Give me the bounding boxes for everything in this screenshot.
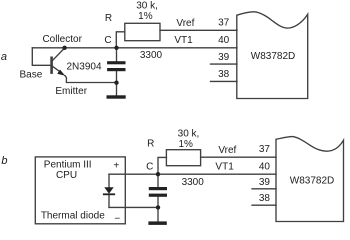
svg-text:Base: Base — [20, 69, 43, 80]
svg-text:3300: 3300 — [182, 177, 205, 188]
svg-text:Vref: Vref — [218, 145, 236, 156]
svg-text:+: + — [113, 160, 119, 171]
svg-text:Collector: Collector — [42, 34, 82, 45]
svg-text:1%: 1% — [178, 139, 193, 150]
svg-text:W83782D: W83782D — [251, 51, 295, 62]
svg-text:W83782D: W83782D — [290, 176, 334, 187]
svg-text:a: a — [1, 51, 7, 63]
svg-text:Emitter: Emitter — [55, 86, 87, 97]
svg-text:VT1: VT1 — [174, 35, 193, 46]
svg-text:1%: 1% — [138, 11, 153, 22]
svg-text:37: 37 — [259, 144, 271, 155]
svg-text:VT1: VT1 — [215, 161, 234, 172]
svg-text:b: b — [1, 155, 7, 167]
svg-text:40: 40 — [218, 35, 230, 46]
svg-text:CPU: CPU — [56, 170, 77, 181]
svg-text:C: C — [104, 35, 111, 46]
svg-text:2N3904: 2N3904 — [66, 61, 101, 72]
svg-text:30 k,: 30 k, — [178, 128, 200, 139]
svg-text:C: C — [146, 162, 153, 173]
svg-text:3300: 3300 — [140, 50, 163, 61]
svg-text:R: R — [105, 13, 112, 24]
svg-text:38: 38 — [259, 193, 271, 204]
svg-text:Pentium III: Pentium III — [44, 160, 92, 171]
svg-text:Thermal diode: Thermal diode — [41, 210, 105, 221]
svg-text:39: 39 — [259, 177, 271, 188]
svg-text:38: 38 — [218, 69, 230, 80]
svg-text:40: 40 — [259, 161, 271, 172]
svg-text:R: R — [147, 139, 154, 150]
svg-text:37: 37 — [218, 18, 230, 29]
svg-text:−: − — [114, 213, 120, 224]
svg-text:Vref: Vref — [176, 18, 194, 29]
svg-text:39: 39 — [218, 52, 230, 63]
